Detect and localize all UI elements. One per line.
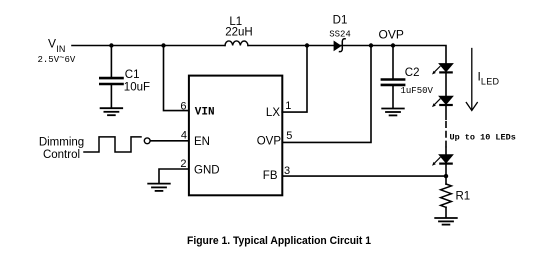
svg-text:22uH: 22uH — [225, 27, 253, 39]
svg-text:LX: LX — [266, 107, 280, 119]
svg-text:1: 1 — [285, 100, 291, 112]
svg-text:EN: EN — [194, 136, 210, 148]
svg-text:D1: D1 — [333, 14, 348, 26]
svg-text:4: 4 — [181, 129, 187, 141]
svg-text:6: 6 — [180, 101, 186, 113]
svg-text:C2: C2 — [405, 67, 420, 79]
svg-text:OVP: OVP — [257, 135, 282, 147]
svg-text:C1: C1 — [125, 69, 140, 81]
svg-text:3: 3 — [284, 165, 290, 177]
svg-text:10uF: 10uF — [124, 82, 150, 94]
svg-text:LED: LED — [481, 77, 500, 87]
svg-text:Up to 10 LEDs: Up to 10 LEDs — [450, 133, 516, 143]
svg-text:R1: R1 — [456, 190, 471, 202]
svg-text:Dimming: Dimming — [39, 136, 84, 148]
svg-text:5: 5 — [286, 130, 292, 142]
svg-text:1uF50V: 1uF50V — [401, 86, 434, 96]
svg-text:Figure 1. Typical Application: Figure 1. Typical Application Circuit 1 — [187, 235, 371, 247]
svg-text:Control: Control — [43, 149, 80, 161]
svg-text:OVP: OVP — [379, 27, 404, 41]
svg-text:2: 2 — [180, 158, 186, 170]
svg-text:2.5V~6V: 2.5V~6V — [38, 53, 76, 65]
svg-text:SS24: SS24 — [329, 29, 351, 39]
svg-text:GND: GND — [194, 165, 220, 177]
svg-text:FB: FB — [263, 170, 278, 182]
svg-text:VIN: VIN — [195, 107, 215, 119]
svg-text:V: V — [48, 37, 56, 51]
